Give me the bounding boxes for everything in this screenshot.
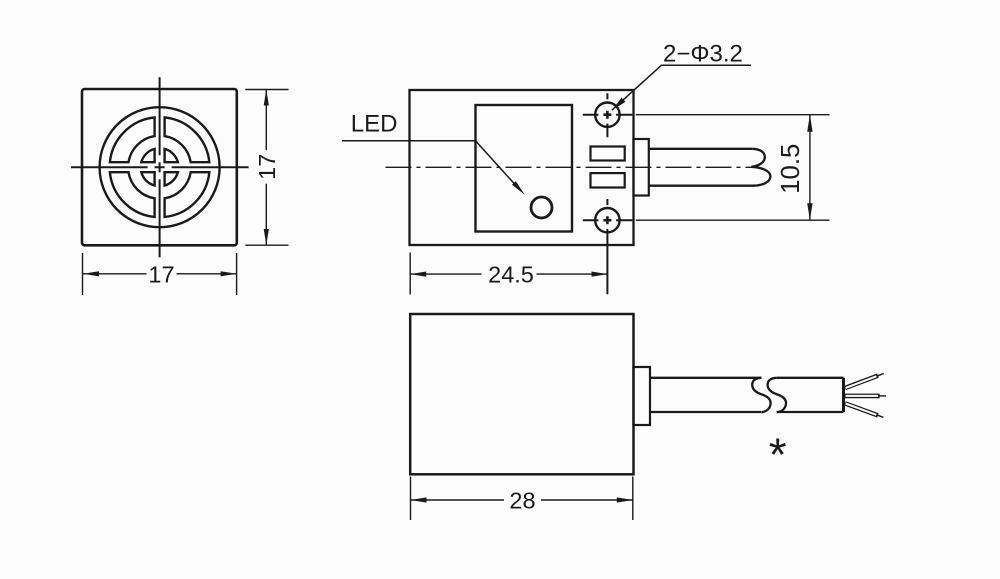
arrowhead dim 10.5 bottom (807, 203, 812, 220)
dimension 28 extension lines (411, 477, 633, 521)
dimension 17 right extension lines (245, 90, 288, 246)
svg-text:24.5: 24.5 (488, 261, 534, 287)
arrowhead dim 17 right top (264, 90, 269, 106)
arrowhead dim 17 right bottom (264, 229, 269, 245)
sensing ring band bottom-left (110, 172, 155, 217)
dimension 28 dimension line (411, 499, 633, 501)
side view inner window rectangle (476, 105, 573, 232)
mounting hole bottom (595, 208, 619, 232)
dimension 10.5 extension lines (636, 115, 830, 221)
mounting hole bottom crosshair and extension (583, 199, 633, 294)
terminal slot lower (591, 173, 625, 187)
sensing ring band top-left (110, 117, 155, 162)
dimension 17 bottom dimension line (83, 273, 237, 275)
arrowhead dim 17 bottom right (221, 271, 237, 276)
arrowhead dim 24.5 left (410, 272, 426, 277)
dimension 24.5 left extension line (409, 253, 411, 295)
arrowhead dim 28 right (617, 497, 633, 502)
mounting hole bottom center cross (603, 216, 611, 224)
wire lead middle (845, 394, 880, 399)
cable break squiggle right (768, 378, 786, 412)
svg-text:*: * (769, 429, 787, 481)
front view vertical centerline (159, 77, 161, 257)
arrowhead 2-phi3.2 leader (612, 98, 626, 111)
inner quarter disc top-left (141, 149, 154, 162)
wire lead top (845, 376, 878, 388)
inner quarter disc bottom-right (165, 172, 178, 185)
cable bottom view left piece bottom line (650, 411, 761, 413)
cable side view top line (649, 148, 753, 150)
dimension 17 right dimension line (265, 90, 267, 246)
sensing ring band top-right (165, 117, 210, 162)
svg-text:28: 28 (509, 487, 535, 513)
cable bottom view left piece top line (650, 377, 761, 379)
wire tip lines (878, 374, 887, 418)
front view square body (82, 89, 237, 245)
LED indicator circle (531, 197, 552, 218)
svg-text:17: 17 (148, 261, 174, 287)
label 2-phi3.2 leader line (612, 65, 751, 110)
cable side view break squiggle (751, 149, 770, 186)
arrowhead dim 28 left (411, 497, 427, 502)
mounting hole top (595, 103, 619, 127)
arrowhead dim 10.5 top (807, 115, 812, 132)
cable bottom view right piece top line (777, 377, 844, 379)
svg-text:10.5: 10.5 (777, 144, 805, 194)
terminal slot upper (591, 147, 625, 161)
dimension 17 bottom extension lines (83, 253, 237, 295)
wire lead bottom (845, 403, 878, 415)
cable end cap (842, 378, 845, 412)
svg-text:LED: LED (351, 111, 398, 138)
inner quarter disc bottom-left (141, 172, 154, 185)
sensing ring band bottom-right (165, 172, 210, 217)
dimension 10.5 dimension line (809, 115, 811, 221)
svg-text:2−Φ3.2: 2−Φ3.2 (663, 41, 743, 68)
inner quarter disc top-right (165, 149, 178, 162)
arrowhead LED leader (512, 181, 525, 195)
dimension 24.5 dimension line (410, 273, 607, 275)
arrowhead dim 24.5 right (592, 272, 608, 277)
cable gland block bottom view (634, 367, 651, 425)
cable bottom view right piece bottom line (777, 411, 844, 413)
wire lead white cores (846, 376, 878, 415)
front view horizontal centerline (71, 166, 249, 168)
cable break squiggle left (752, 378, 770, 412)
cable side view bottom line (649, 185, 754, 187)
bottom view body rectangle (410, 314, 633, 474)
side view centerline dash-dot (386, 166, 755, 168)
arrowhead dim 17 bottom left (83, 271, 99, 276)
side view main body rectangle (410, 90, 634, 245)
mounting hole top crosshair (583, 93, 633, 137)
svg-text:17: 17 (254, 154, 280, 180)
LED leader line (342, 141, 520, 190)
front view outer circle (100, 107, 220, 227)
cable gland block side view (634, 139, 649, 196)
mounting hole top center cross (603, 111, 611, 119)
